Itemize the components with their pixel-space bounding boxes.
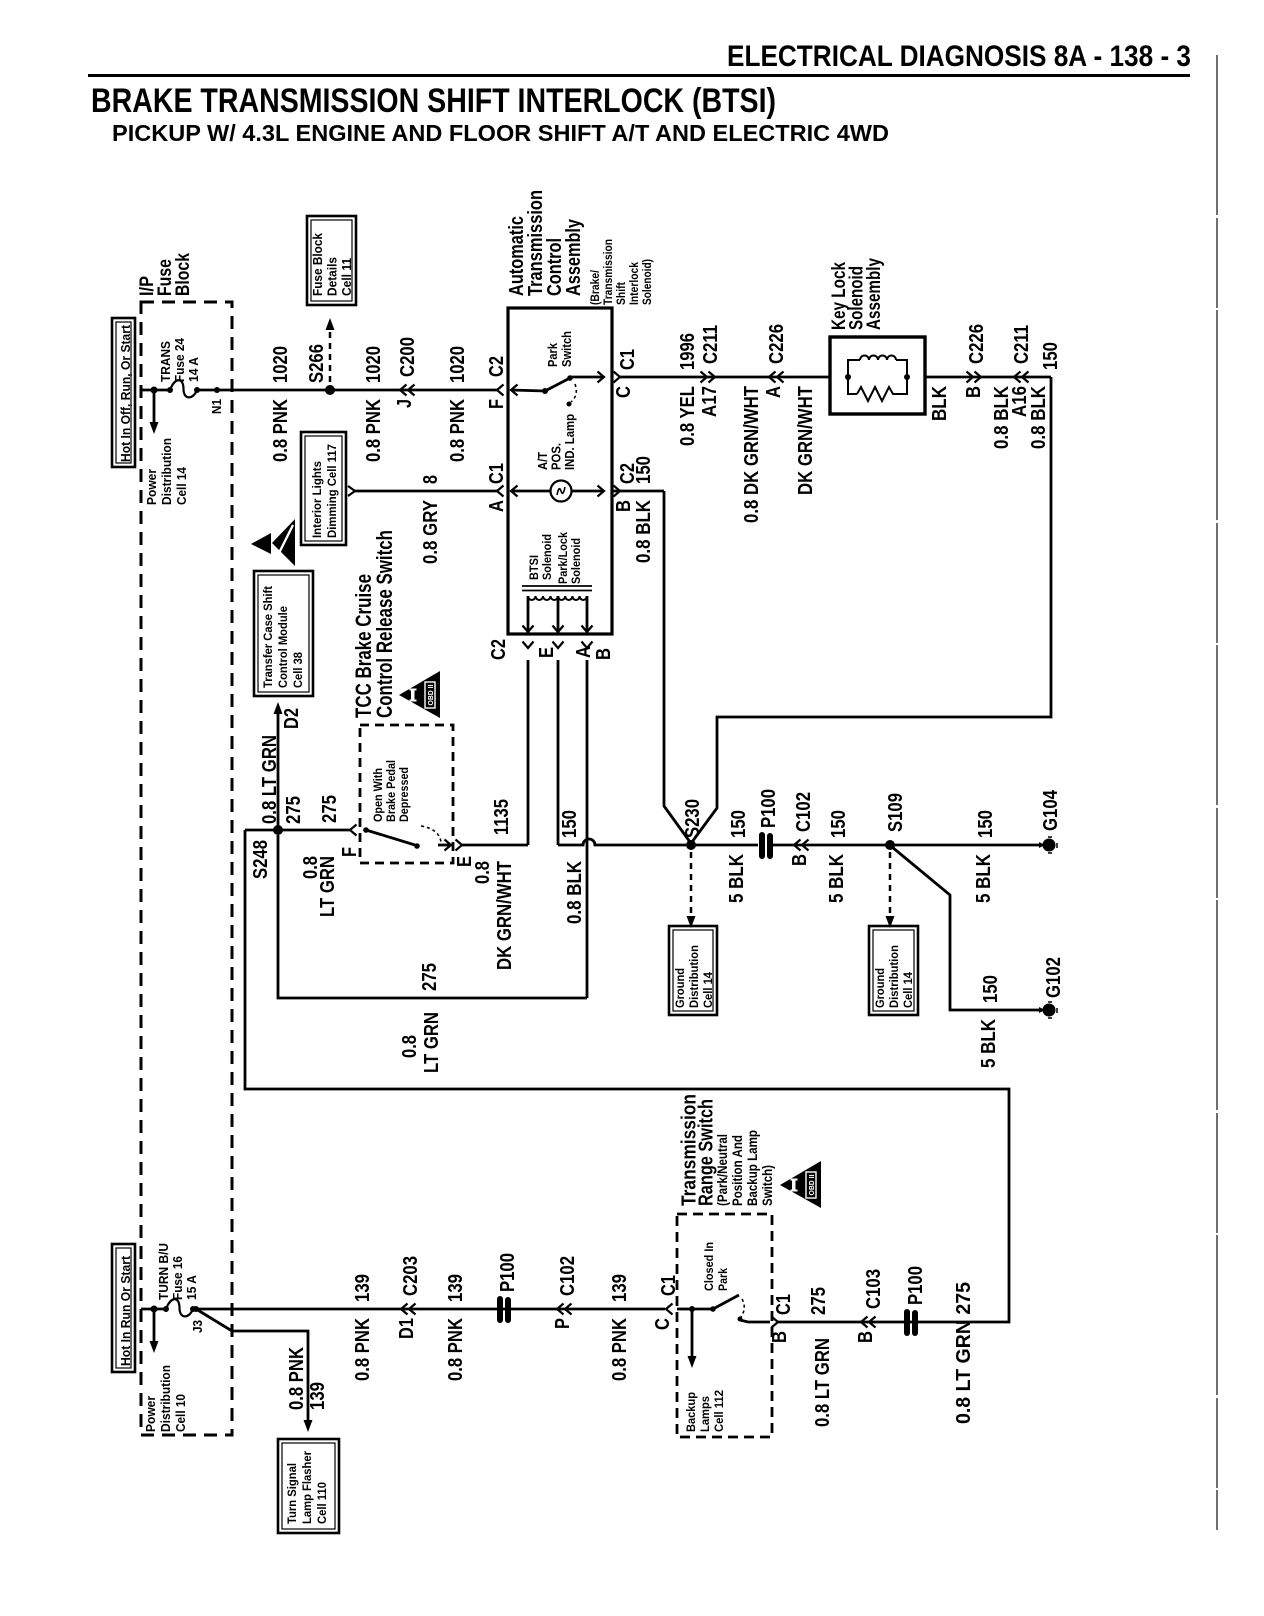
- svg-text:Cell 10: Cell 10: [174, 1394, 188, 1432]
- svg-text:C: C: [613, 386, 635, 398]
- wire B/C2 to S230: [664, 491, 690, 842]
- svg-text:C2: C2: [488, 639, 510, 660]
- key lock internal parallel R and coil: [845, 374, 851, 380]
- solenoid core lines: [522, 585, 592, 587]
- svg-text:150: 150: [559, 810, 581, 838]
- svg-text:Switch): Switch): [760, 1165, 775, 1206]
- svg-text:(Brake/: (Brake/: [588, 269, 602, 305]
- svg-text:150: 150: [975, 810, 997, 838]
- svg-text:N1: N1: [210, 399, 224, 414]
- svg-text:0.8 BLK: 0.8 BLK: [564, 861, 586, 924]
- svg-text:BRAKE TRANSMISSION SHIFT INTER: BRAKE TRANSMISSION SHIFT INTERLOCK (BTSI…: [91, 82, 776, 120]
- svg-text:1020: 1020: [363, 346, 385, 383]
- branch to turn signal flasher: [196, 1309, 308, 1420]
- svg-text:150: 150: [980, 975, 1002, 1003]
- svg-text:Distribution: Distribution: [887, 945, 901, 1008]
- wire S248 left branch down to range switch B: [245, 830, 1009, 1322]
- svg-text:Control Module: Control Module: [276, 606, 290, 688]
- pin A of C1 chevrons: [497, 486, 504, 497]
- svg-text:C103: C103: [863, 1269, 885, 1309]
- pin F of TCC switch: [350, 825, 357, 836]
- hot in off run or start box: [112, 318, 135, 467]
- fuse TURN B/U Fuse 16 15A: [163, 1306, 169, 1312]
- svg-text:Cell 14: Cell 14: [901, 972, 915, 1008]
- svg-text:150: 150: [1040, 342, 1062, 370]
- svg-text:0.8 PNK: 0.8 PNK: [447, 399, 469, 462]
- svg-text:BLK: BLK: [929, 386, 951, 421]
- svg-text:PICKUP W/ 4.3L ENGINE AND FLOO: PICKUP W/ 4.3L ENGINE AND FLOOR SHIFT A/…: [112, 120, 889, 146]
- svg-text:OBD II: OBD II: [809, 1174, 816, 1195]
- connector C226 chevrons: [769, 372, 776, 383]
- svg-text:275: 275: [419, 963, 441, 991]
- svg-text:139: 139: [307, 1382, 329, 1410]
- arrow D2 to transfer case module: [277, 714, 280, 830]
- ground G104: [1043, 839, 1056, 852]
- svg-text:Fuse 16: Fuse 16: [171, 1256, 185, 1300]
- svg-text:Assembly: Assembly: [562, 219, 585, 296]
- svg-text:Solenoid: Solenoid: [569, 538, 583, 584]
- svg-text:Backup: Backup: [684, 1392, 698, 1432]
- pin E of TCC switch: [445, 840, 452, 851]
- svg-text:0.8: 0.8: [472, 861, 494, 884]
- svg-text:DK GRN/WHT: DK GRN/WHT: [795, 386, 817, 495]
- caution triangles: [251, 533, 271, 554]
- svg-text:Cell 38: Cell 38: [291, 652, 305, 688]
- transmission range switch dashed box: [677, 1214, 772, 1437]
- svg-text:1020: 1020: [447, 346, 469, 383]
- wire W1 feed stub: [141, 389, 170, 392]
- svg-text:275: 275: [319, 795, 341, 823]
- connector C200 chevrons: [400, 385, 407, 396]
- splice S266 dot: [325, 385, 335, 395]
- svg-text:139: 139: [609, 1274, 631, 1302]
- fuse block details box: [307, 216, 356, 305]
- svg-text:Park: Park: [546, 343, 560, 367]
- svg-text:Backup Lamp: Backup Lamp: [745, 1130, 760, 1206]
- svg-text:B: B: [963, 386, 985, 398]
- svg-text:275: 275: [283, 796, 305, 824]
- svg-text:BTSI: BTSI: [527, 555, 541, 580]
- svg-text:Ground: Ground: [673, 968, 687, 1008]
- svg-text:P: P: [552, 1318, 574, 1329]
- OBD II triangle 2: [780, 1161, 821, 1208]
- svg-text:0.8 BLK: 0.8 BLK: [1028, 386, 1050, 449]
- svg-text:C200: C200: [397, 337, 419, 377]
- svg-text:C2: C2: [486, 356, 508, 377]
- svg-text:A: A: [763, 386, 785, 398]
- svg-text:S109: S109: [885, 793, 907, 832]
- range switch internals: [677, 1308, 692, 1311]
- svg-text:0.8 PNK: 0.8 PNK: [609, 1318, 631, 1381]
- svg-text:1135: 1135: [491, 799, 513, 835]
- svg-text:Details: Details: [326, 257, 340, 296]
- svg-text:8: 8: [420, 475, 442, 484]
- svg-text:C102: C102: [557, 1256, 579, 1296]
- svg-text:(Park/Neutral: (Park/Neutral: [715, 1134, 730, 1206]
- connector C226 right chevrons: [975, 372, 982, 383]
- svg-text:F: F: [486, 399, 508, 409]
- svg-text:Brake Pedal: Brake Pedal: [384, 760, 398, 822]
- svg-text:C: C: [652, 1318, 674, 1330]
- page edge line: [1216, 55, 1218, 1530]
- svg-text:P100: P100: [905, 1266, 927, 1305]
- wire S109 to G102: [892, 847, 1042, 1010]
- svg-text:C203: C203: [400, 1256, 422, 1296]
- svg-text:5 BLK: 5 BLK: [978, 1019, 1000, 1068]
- svg-text:Distribution: Distribution: [159, 1365, 173, 1432]
- svg-text:Cell 112: Cell 112: [712, 1390, 726, 1432]
- svg-text:C102: C102: [793, 792, 815, 832]
- wire S248 to TCC switch F: [245, 829, 350, 832]
- svg-text:Park: Park: [716, 1268, 730, 1291]
- svg-text:J: J: [394, 399, 416, 408]
- ground G102: [1043, 1004, 1056, 1017]
- TCC switch contacts: [363, 827, 369, 833]
- svg-text:0.8 YEL: 0.8 YEL: [677, 386, 699, 446]
- svg-text:Transfer Case Shift: Transfer Case Shift: [261, 586, 275, 688]
- svg-text:F: F: [339, 847, 361, 857]
- junction dot at fuse input: [151, 387, 158, 394]
- svg-text:Distribution: Distribution: [160, 438, 174, 505]
- svg-text:0.8 PNK: 0.8 PNK: [445, 1318, 467, 1381]
- svg-text:POS.: POS.: [550, 443, 564, 470]
- svg-text:150: 150: [828, 810, 850, 838]
- splice S230 dot: [686, 840, 696, 850]
- svg-text:15 A: 15 A: [185, 1275, 199, 1300]
- svg-text:TURN B/U: TURN B/U: [157, 1243, 171, 1300]
- node N1 dot: [214, 387, 220, 393]
- dashed drop to ground distribution 1: [690, 852, 693, 914]
- svg-text:Solenoid): Solenoid): [640, 259, 654, 305]
- svg-text:Transmission: Transmission: [601, 239, 615, 305]
- transfer case shift control module box: [254, 571, 313, 696]
- dashed drop to ground distribution 2: [889, 852, 892, 914]
- wire W1 fuse to S266: [197, 389, 330, 392]
- svg-text:Park/Lock: Park/Lock: [556, 532, 570, 584]
- svg-text:Position And: Position And: [730, 1135, 745, 1206]
- svg-text:B: B: [593, 648, 615, 660]
- svg-text:Distribution: Distribution: [687, 945, 701, 1008]
- svg-text:B: B: [769, 1331, 791, 1343]
- TCC brake cruise control release switch dashed box: [360, 725, 453, 863]
- svg-text:C211: C211: [700, 325, 722, 364]
- splice S248 dot: [273, 825, 283, 835]
- svg-text:5 BLK: 5 BLK: [826, 854, 848, 903]
- svg-text:C1: C1: [486, 463, 508, 484]
- svg-text:Lamps: Lamps: [698, 1396, 712, 1432]
- svg-text:0.8 PNK: 0.8 PNK: [363, 399, 385, 462]
- node J3: [193, 1306, 199, 1312]
- pin B of range switch: [772, 1317, 779, 1328]
- svg-text:G104: G104: [1040, 789, 1062, 831]
- connector C203 chevrons: [401, 1304, 408, 1315]
- header rule: [88, 74, 1190, 77]
- svg-text:139: 139: [445, 1274, 467, 1302]
- wire A pin to S230 with hop over B wire: [557, 660, 560, 845]
- svg-text:Cell 11: Cell 11: [340, 258, 354, 296]
- svg-text:Lamp Flasher: Lamp Flasher: [300, 1451, 314, 1524]
- wire W6 to range switch: [196, 1308, 665, 1311]
- svg-text:0.8 PNK: 0.8 PNK: [352, 1318, 374, 1381]
- svg-text:Open With: Open With: [371, 768, 385, 822]
- wire P100 to C102: [773, 844, 890, 847]
- wire B pin down to LT GRN crossover: [586, 660, 589, 998]
- wire W3 C1-C to key lock: [620, 376, 830, 379]
- svg-text:B: B: [789, 854, 811, 866]
- svg-text:1996: 1996: [677, 333, 699, 370]
- svg-text:G102: G102: [1043, 957, 1065, 998]
- svg-text:150: 150: [633, 456, 655, 484]
- pin C of range switch C1: [666, 1304, 673, 1315]
- turn signal lamp flasher box: [278, 1439, 339, 1533]
- svg-text:D2: D2: [281, 708, 303, 729]
- wire W1 S266 to C200: [330, 389, 497, 392]
- svg-text:0.8 LT GRN: 0.8 LT GRN: [812, 1338, 834, 1427]
- svg-text:5 BLK: 5 BLK: [973, 854, 995, 903]
- svg-text:A: A: [486, 500, 508, 512]
- arrow to power distribution cell 10: [153, 1309, 156, 1341]
- connector C103 chevrons: [861, 1317, 868, 1328]
- svg-text:Closed In: Closed In: [702, 1242, 716, 1291]
- park switch: [511, 390, 545, 391]
- solenoid coils: [528, 596, 558, 600]
- svg-text:Cell 110: Cell 110: [315, 1482, 329, 1524]
- svg-text:DK GRN/WHT: DK GRN/WHT: [494, 861, 516, 970]
- svg-text:Cell 14: Cell 14: [175, 467, 189, 505]
- svg-text:C226: C226: [766, 324, 788, 364]
- pin B of C2 chevrons: [614, 486, 621, 497]
- svg-text:0.8: 0.8: [399, 1035, 421, 1058]
- pass-through P100 grommet: [759, 832, 765, 859]
- svg-text:1020: 1020: [270, 346, 292, 383]
- svg-text:S230: S230: [682, 799, 704, 838]
- pass-through P100 grommet 3: [904, 1309, 910, 1336]
- wire W6 feed stub: [141, 1308, 166, 1311]
- svg-text:C226: C226: [966, 324, 988, 364]
- svg-text:Depressed: Depressed: [397, 767, 411, 822]
- splice S109 dot: [885, 840, 895, 850]
- svg-text:S266: S266: [306, 344, 328, 383]
- wire W3b key lock to corner: [925, 376, 1051, 379]
- svg-text:C211: C211: [1011, 325, 1033, 364]
- svg-text:Control Release Switch: Control Release Switch: [372, 530, 397, 718]
- svg-text:Interior Lights: Interior Lights: [310, 461, 324, 538]
- solenoid pin wires E A B inside: [527, 596, 530, 634]
- svg-text:150: 150: [728, 810, 750, 838]
- svg-text:Cell 14: Cell 14: [701, 972, 715, 1008]
- svg-text:0.8 BLK: 0.8 BLK: [633, 500, 655, 563]
- svg-text:Power: Power: [145, 469, 159, 505]
- svg-text:A/T: A/T: [536, 452, 550, 470]
- svg-text:275: 275: [808, 1287, 830, 1315]
- svg-text:TRANS: TRANS: [159, 341, 173, 382]
- svg-text:Power: Power: [144, 1396, 158, 1432]
- dashed drop to fuse block details: [329, 332, 332, 384]
- svg-text:B: B: [855, 1331, 877, 1343]
- svg-text:Fuse Block: Fuse Block: [311, 233, 325, 296]
- pin C of C1 chevrons: [614, 372, 621, 383]
- svg-text:139: 139: [352, 1274, 374, 1302]
- automatic transmission control assembly box: [508, 308, 612, 634]
- I/P fuse block dashed box: [141, 302, 232, 1435]
- ground distribution box 1: [669, 926, 717, 1015]
- svg-text:E: E: [536, 647, 558, 658]
- svg-text:ELECTRICAL DIAGNOSIS 8A - 138: ELECTRICAL DIAGNOSIS 8A - 138 - 3: [727, 40, 1191, 73]
- svg-text:OBD II: OBD II: [428, 684, 435, 705]
- arrow to power distribution cell 14: [153, 390, 156, 422]
- connector C211 chevrons: [709, 372, 716, 383]
- svg-text:P100: P100: [758, 789, 780, 828]
- svg-text:Shift: Shift: [614, 282, 628, 305]
- svg-text:B: B: [613, 500, 635, 512]
- svg-text:Solenoid: Solenoid: [540, 534, 554, 580]
- svg-text:Interlock: Interlock: [627, 262, 641, 305]
- svg-text:IND. Lamp: IND. Lamp: [563, 414, 577, 470]
- connector C102 chevrons bottom: [557, 1304, 564, 1315]
- svg-text:C1: C1: [617, 349, 639, 370]
- svg-text:D1: D1: [396, 1318, 418, 1339]
- svg-text:A17: A17: [699, 386, 721, 417]
- svg-text:0.8 PNK: 0.8 PNK: [286, 1347, 308, 1410]
- svg-text:Turn Signal: Turn Signal: [285, 1463, 299, 1524]
- svg-text:0.8 LT GRN: 0.8 LT GRN: [259, 735, 281, 824]
- svg-text:0.8 GRY: 0.8 GRY: [420, 499, 442, 564]
- svg-text:LT GRN: LT GRN: [421, 1012, 443, 1073]
- svg-text:Block: Block: [173, 253, 194, 296]
- hot in run or start box: [112, 1244, 135, 1372]
- svg-text:A: A: [573, 646, 595, 658]
- svg-text:LT GRN: LT GRN: [317, 856, 339, 917]
- wire BLK 150 down and left to S230: [692, 377, 1051, 842]
- A/T POS IND lamp: [511, 490, 551, 493]
- wire E to solenoid pin E: [462, 844, 528, 847]
- svg-text:S248: S248: [250, 840, 272, 879]
- interior lights dimming box: [301, 432, 346, 545]
- pass-through P100 grommet 2: [497, 1296, 503, 1323]
- svg-text:J3: J3: [191, 1320, 205, 1333]
- wire W2 dimmer feed y=491: [348, 486, 355, 496]
- svg-text:Hot In Run Or Start: Hot In Run Or Start: [119, 1255, 133, 1366]
- svg-text:0.8 DK GRN/WHT: 0.8 DK GRN/WHT: [741, 386, 763, 523]
- connector C211 right chevrons: [1014, 372, 1021, 383]
- connector C102 chevrons: [794, 840, 801, 851]
- svg-text:0.8 PNK: 0.8 PNK: [270, 399, 292, 462]
- pin F of C2 chevrons: [497, 385, 504, 396]
- svg-text:Assembly: Assembly: [864, 258, 885, 330]
- svg-text:Hot In Off, Run, Or Start: Hot In Off, Run, Or Start: [119, 324, 133, 462]
- svg-text:Fuse 24: Fuse 24: [173, 338, 187, 382]
- svg-text:0.8 LT GRN 275: 0.8 LT GRN 275: [953, 1282, 975, 1424]
- svg-text:14 A: 14 A: [187, 357, 201, 382]
- svg-text:Switch: Switch: [560, 331, 574, 367]
- svg-text:Ground: Ground: [873, 968, 887, 1008]
- wire S109 to G104: [890, 844, 1042, 847]
- svg-text:5 BLK: 5 BLK: [726, 854, 748, 903]
- wire S248 down and right to solenoid B: [278, 835, 587, 998]
- OBD II triangle 1: [399, 671, 440, 718]
- pin forks E A B below box: [523, 642, 534, 649]
- svg-text:P100: P100: [497, 1253, 519, 1292]
- fuse TRANS Fuse 24 14A: [167, 387, 173, 393]
- junction dot bottom: [151, 1306, 158, 1313]
- key lock solenoid assembly box: [830, 337, 925, 414]
- svg-text:C1: C1: [773, 1294, 795, 1315]
- ground distribution box 2: [869, 926, 918, 1015]
- wire S230 to P100: [691, 844, 758, 847]
- svg-text:Dimming Cell 117: Dimming Cell 117: [325, 444, 339, 538]
